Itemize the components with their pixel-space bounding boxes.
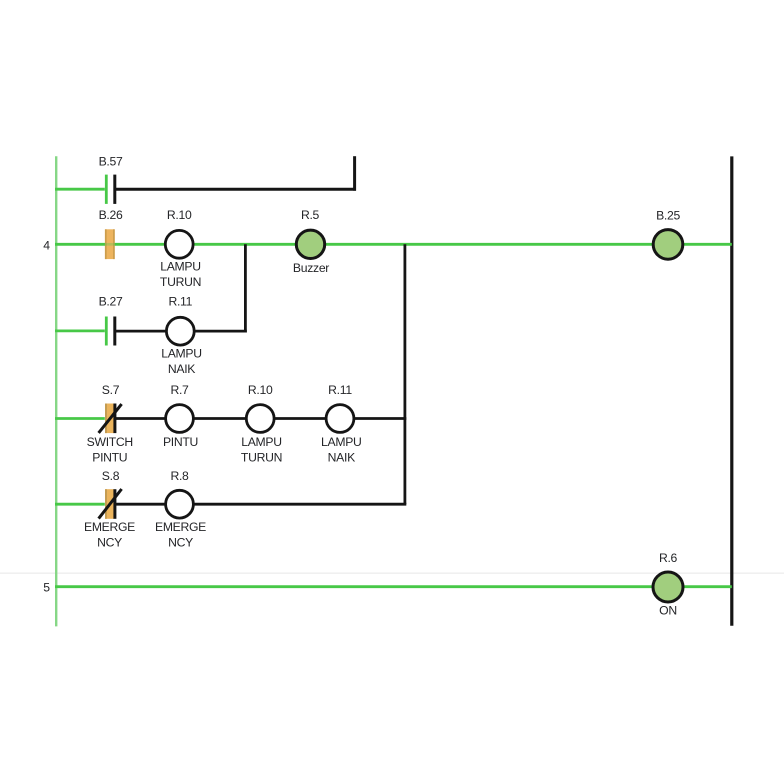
svg-text:PINTU: PINTU [92,450,127,464]
svg-text:5: 5 [43,581,50,595]
contact S.8 (NC, highlighted orange, with slash) [99,489,122,519]
contact B.26 (closed, highlighted orange) [104,229,116,259]
label LAMPU NAIK [321,435,362,464]
svg-text:EMERGE: EMERGE [84,520,135,534]
label SWITCH PINTU [87,435,133,464]
svg-text:S.7: S.7 [102,383,120,397]
coil R.10 (LAMPU TURUN) on rung 4 [165,230,193,258]
coil B.25 (energized green) [653,230,683,260]
right power rail (black) [730,156,733,625]
svg-text:4: 4 [43,238,50,252]
junction wire: rung 4 down to S.7/S.8 branches [403,244,406,504]
svg-text:NCY: NCY [97,535,122,549]
coil R.8 (EMERGENCY) [166,490,194,518]
coil R.6 (ON, energized green) [653,572,683,602]
branch wire: contact S.8 to junction (black) [115,503,406,506]
label EMERGE NCY [84,520,135,549]
svg-text:R.11: R.11 [168,295,192,309]
svg-text:LAMPU: LAMPU [160,260,201,274]
coil R.10 (LAMPU TURUN) on S.7 branch [246,405,274,433]
rung 3 vertical wire up to crop edge [353,156,356,191]
branch wire: contact B.27 to junction (black) [115,330,247,333]
label EMERGE NCY [155,520,206,549]
svg-text:S.8: S.8 [102,469,120,483]
svg-text:R.6: R.6 [659,551,678,565]
svg-text:LAMPU: LAMPU [241,435,282,449]
svg-text:NCY: NCY [168,535,193,549]
svg-text:B.26: B.26 [99,208,123,222]
svg-text:R.5: R.5 [301,208,320,222]
svg-text:R.10: R.10 [248,383,273,397]
rung 3 wire: contact to branch corner (black) [115,188,356,191]
svg-text:EMERGE: EMERGE [155,520,206,534]
contact B.27 [106,317,115,346]
rung 4 wire (green, full width) [55,243,732,246]
svg-text:LAMPU: LAMPU [161,346,202,360]
svg-text:B.27: B.27 [99,295,123,309]
faint grid line above rung 5 [0,572,784,574]
contact S.7 (NC, highlighted orange, with slash) [99,404,122,434]
svg-text:LAMPU: LAMPU [321,435,362,449]
coil R.5 (Buzzer, energized green) [296,230,324,258]
svg-text:PINTU: PINTU [163,435,198,449]
svg-text:TURUN: TURUN [160,275,201,289]
left power rail (green) [55,156,57,626]
label LAMPU NAIK [161,346,202,376]
label LAMPU TURUN [160,260,201,290]
svg-text:SWITCH: SWITCH [87,435,133,449]
coil R.7 (PINTU) [166,405,194,433]
svg-text:NAIK: NAIK [168,362,195,376]
contact B.57 [106,175,115,204]
branch wire: left rail to contact B.27 (green) [55,329,105,332]
coil R.11 (LAMPU NAIK) on S.7 branch [326,405,354,433]
junction wire: rung 4 down to B.27 branch [244,244,247,332]
branch wire: left rail to contact S.8 (green) [55,503,105,506]
svg-text:R.8: R.8 [170,469,189,483]
coil R.11 (LAMPU NAIK) on B.27 branch [166,317,194,345]
svg-text:TURUN: TURUN [241,450,282,464]
svg-text:R.7: R.7 [170,383,189,397]
svg-text:R.10: R.10 [167,208,192,222]
svg-text:ON: ON [659,603,677,617]
label LAMPU TURUN [241,435,282,464]
rung 3 wire: left rail to contact B.57 (green) [55,188,105,191]
branch wire: left rail to contact S.7 (green) [55,417,105,420]
label B.57 (top-clipped by image crop) [92,142,130,168]
svg-text:Buzzer: Buzzer [293,261,329,275]
branch wire: contact S.7 to junction (black) [115,417,406,420]
svg-text:R.11: R.11 [328,383,352,397]
rung 5 wire (green, full width) [55,585,732,588]
svg-text:NAIK: NAIK [328,450,355,464]
svg-text:B.25: B.25 [656,209,680,223]
